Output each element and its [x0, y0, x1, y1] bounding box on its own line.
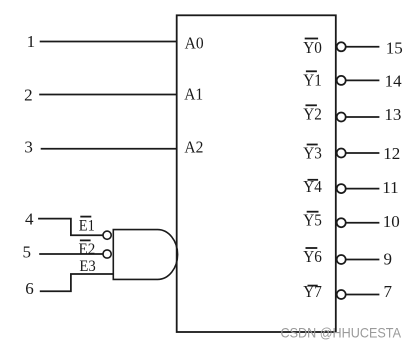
wire Y4 to pin 11 [347, 188, 380, 190]
svg-text:E2: E2 [79, 241, 96, 258]
svg-text:E1: E1 [79, 217, 95, 234]
svg-text:CSDN @HHUCESTA: CSDN @HHUCESTA [281, 324, 402, 340]
overline of E2 [80, 239, 91, 241]
wire Y1 to pin 14 [347, 79, 380, 81]
wire pin6 to E3 [40, 274, 114, 291]
bubble Y3 [337, 149, 346, 158]
bubble Y5 [337, 218, 346, 227]
svg-text:13: 13 [384, 105, 401, 124]
svg-text:7: 7 [384, 282, 393, 301]
wire Y5 to pin 10 [347, 222, 380, 224]
wire Y6 to pin 9 [347, 259, 380, 261]
svg-text:Y3: Y3 [303, 144, 322, 163]
wire Y0 to pin 15 [347, 46, 380, 48]
svg-text:10: 10 [383, 212, 400, 231]
bubble Y2 [337, 113, 346, 122]
wire Y3 to pin 12 [347, 152, 380, 154]
AND gate U2 (enable gate) [113, 230, 177, 280]
wire pin2 to A1 [39, 94, 177, 96]
IC body U1 (3-to-8 decoder rectangle) [177, 15, 336, 332]
bubble Y1 [337, 76, 346, 85]
svg-text:Y5: Y5 [303, 211, 322, 230]
svg-text:Y1: Y1 [303, 71, 322, 90]
overline of Y5 [307, 211, 319, 213]
svg-text:E3: E3 [79, 258, 95, 275]
svg-text:6: 6 [25, 279, 34, 298]
svg-text:1: 1 [27, 32, 36, 51]
svg-text:Y7: Y7 [303, 282, 322, 301]
svg-text:Y6: Y6 [303, 247, 322, 266]
inverter bubble on E1 input [103, 231, 111, 239]
wire pin5 to E2 bubble [39, 253, 102, 255]
svg-text:9: 9 [384, 249, 393, 268]
svg-text:A0: A0 [185, 34, 204, 53]
svg-text:14: 14 [385, 71, 403, 90]
svg-text:Y2: Y2 [303, 104, 322, 123]
wire pin4 to E1 bubble [38, 219, 103, 236]
wire pin1 to A0 [40, 41, 177, 43]
svg-text:3: 3 [24, 138, 33, 157]
overline of Y4 [308, 179, 319, 181]
overline of Y3 [307, 144, 318, 146]
svg-text:2: 2 [24, 86, 33, 105]
svg-text:5: 5 [23, 243, 32, 262]
bubble Y7 [337, 290, 346, 299]
overline of Y1 [306, 70, 317, 72]
wire pin3 to A2 [41, 148, 177, 150]
overline of Y6 [306, 247, 318, 249]
svg-text:4: 4 [25, 210, 34, 229]
overline of Y0 [305, 38, 318, 40]
bubble Y6 [337, 255, 346, 264]
overline of Y2 [306, 104, 317, 106]
svg-text:11: 11 [382, 178, 398, 197]
svg-text:12: 12 [383, 144, 400, 163]
wire Y2 to pin 13 [347, 116, 380, 118]
inverter bubble on E2 input [103, 250, 111, 258]
svg-text:A1: A1 [184, 84, 203, 103]
svg-text:15: 15 [386, 39, 403, 58]
bubble Y4 [337, 184, 346, 193]
overline of E1 [80, 216, 91, 218]
svg-text:Y4: Y4 [303, 177, 322, 196]
wire Y7 to pin 7 [347, 294, 380, 296]
overline of Y7 [308, 285, 318, 287]
svg-text:A2: A2 [184, 138, 203, 157]
svg-text:Y0: Y0 [303, 38, 322, 57]
bubble Y0 [337, 42, 346, 51]
